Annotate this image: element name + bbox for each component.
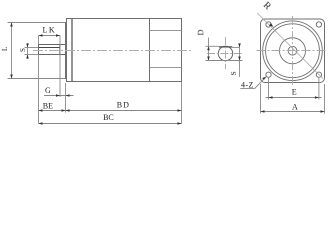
- svg-text:BE: BE: [43, 102, 53, 111]
- rear cap inner line top: [150, 30, 182, 32]
- dimension LK arrows: [39, 34, 61, 37]
- D top extension: [206, 45, 219, 47]
- bolt hole top-left: [266, 22, 271, 27]
- section horizontal centerline: [207, 53, 243, 55]
- dimension BD arrows: [66, 109, 182, 112]
- svg-text:D: D: [196, 29, 205, 35]
- flange outer circle: [263, 21, 323, 81]
- dimension L extension top: [8, 22, 66, 24]
- flange diagonal centerline: [257, 13, 323, 79]
- A extension left: [260, 84, 262, 114]
- dimension S line: [27, 43, 29, 59]
- rear cap inner line bottom: [150, 67, 182, 69]
- dimension E line: [266, 97, 322, 99]
- shaft tip extension line: [38, 55, 40, 124]
- shaft section flat chord: [219, 46, 232, 48]
- dimension BE arrows: [39, 109, 66, 112]
- dimension D line: [208, 38, 210, 62]
- E extension left: [268, 78, 270, 100]
- side view centerline: [33, 50, 191, 52]
- 4-Z leader slant: [255, 77, 266, 89]
- pilot circle: [280, 38, 306, 64]
- dimension S2 arrows: [238, 43, 241, 60]
- dimension L line: [11, 23, 13, 79]
- shaft: [39, 45, 66, 55]
- bolt hole bottom-left: [266, 72, 271, 77]
- dimension S arrows: [26, 44, 29, 59]
- dimension E arrows: [269, 96, 319, 99]
- section vertical centerline: [225, 37, 227, 69]
- dimension L arrows: [10, 23, 13, 79]
- dimension L extension bottom: [8, 78, 66, 80]
- dimension A line: [261, 111, 325, 113]
- flange inner circle: [266, 24, 320, 78]
- dimension D arrows: [207, 46, 210, 60]
- svg-text:BC: BC: [103, 113, 114, 122]
- shaft flat line: [39, 47, 61, 49]
- motor body outline: [67, 19, 182, 82]
- svg-text:E: E: [292, 88, 297, 97]
- flange/body separator: [71, 19, 73, 82]
- svg-text:L: L: [0, 46, 9, 51]
- dimension S2 line: [239, 45, 241, 78]
- svg-text:S: S: [229, 71, 238, 75]
- shaft circle: [288, 46, 297, 55]
- dimension BC line: [39, 123, 182, 125]
- dimension S extension top: [25, 47, 39, 49]
- bottom extension shared: [206, 60, 243, 62]
- body/rear-cap separator: [149, 19, 151, 82]
- flange square: [261, 19, 325, 83]
- LK left extension: [38, 36, 40, 45]
- dimension G line: [44, 95, 74, 97]
- dimension S extension bottom: [25, 54, 39, 56]
- front flange plate face: [66, 23, 67, 79]
- dimension A arrows: [261, 110, 325, 113]
- svg-text:G: G: [45, 86, 51, 95]
- dimension BC arrows: [39, 122, 182, 125]
- svg-text:S: S: [19, 48, 27, 52]
- E extension right: [318, 78, 320, 100]
- svg-text:A: A: [292, 103, 298, 112]
- flange face extension line: [65, 83, 67, 113]
- dimension LK line: [39, 35, 61, 37]
- flange vertical centerline: [292, 16, 294, 86]
- 4-Z leader underline: [240, 88, 254, 90]
- bolt hole bottom-right: [316, 72, 321, 77]
- dimension BD line: [66, 110, 182, 112]
- svg-text:4-Z: 4-Z: [241, 81, 254, 90]
- dimension G arrows: [56, 94, 70, 97]
- A extension right: [324, 84, 326, 114]
- shaft flat end: [59, 45, 61, 55]
- S2 top extension: [232, 46, 240, 48]
- shaft section circle: [218, 46, 232, 60]
- 4-Z leader arrow: [262, 77, 266, 80]
- R leader arrow: [269, 23, 273, 27]
- svg-text:BD: BD: [117, 100, 130, 109]
- flange horizontal centerline: [257, 50, 328, 52]
- bolt hole top-right: [316, 22, 321, 27]
- rear face extension line: [181, 82, 183, 124]
- dimension BE line: [39, 110, 66, 112]
- svg-text:LK: LK: [42, 26, 56, 35]
- LK right extension / G left extension: [59, 36, 61, 98]
